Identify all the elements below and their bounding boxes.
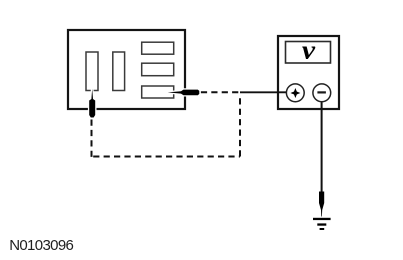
wire from junction to voltmeter plus terminal <box>240 91 287 93</box>
minus terminal circle <box>313 84 331 102</box>
svg-text:v: v <box>302 36 316 65</box>
jumper wire dashed segment from probe P2 to junction <box>201 91 239 93</box>
voltmeter display window <box>286 42 331 64</box>
test probe P3 (points down to ground) <box>319 192 324 217</box>
figure number label <box>9 237 73 254</box>
minus sign <box>317 91 326 93</box>
voltmeter U1 body <box>278 36 339 109</box>
test probe P1 (points up into pin 1) <box>89 89 95 118</box>
jumper wire dashed bottom horizontal segment <box>93 156 240 158</box>
ground symbol G1 bar 2 <box>317 223 326 225</box>
test probe P2 (points left into pin 5) <box>168 90 200 96</box>
wire stub inside voltmeter to plus terminal <box>277 91 288 93</box>
ground symbol G1 bar 3 <box>320 228 325 230</box>
jumper wire dashed vertical left segment down from probe P1 <box>91 120 93 158</box>
plus sign <box>292 89 300 97</box>
pin 1 (left vertical cavity) <box>86 52 98 91</box>
pin 3 (top horizontal cavity) <box>142 42 174 54</box>
plus terminal circle <box>286 84 304 102</box>
jumper wire dashed vertical right segment <box>239 95 241 156</box>
connector C1 body <box>68 30 185 109</box>
pin 4 (middle horizontal cavity) <box>142 63 174 75</box>
pin 5 (bottom horizontal cavity) <box>142 86 174 98</box>
pin 2 (second vertical cavity) <box>113 52 125 91</box>
ground symbol G1 bar 1 <box>313 218 331 220</box>
wire from minus terminal down to ground probe <box>321 102 323 192</box>
